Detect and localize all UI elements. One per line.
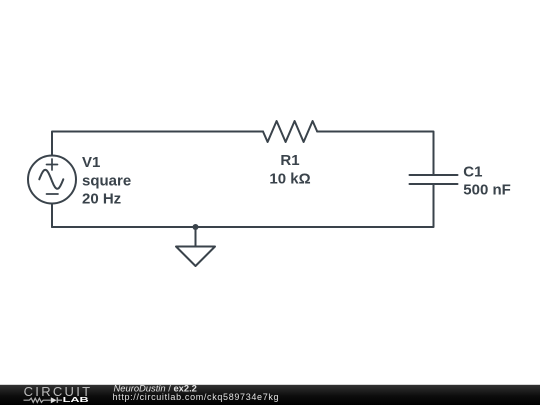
svg-text:C1: C1: [463, 164, 482, 181]
CircuitLab logo diode triangle: [51, 397, 57, 403]
capacitor C1: [410, 175, 458, 184]
svg-text:10 kΩ: 10 kΩ: [269, 170, 310, 187]
ground: [176, 227, 215, 266]
wire from resistor to top-right corner: [317, 132, 433, 176]
wire top-left from V1 top to resistor: [52, 132, 263, 156]
svg-text:V1: V1: [82, 154, 100, 171]
svg-text:square: square: [82, 172, 131, 189]
wire from C1 bottom to bottom-right corner: [52, 184, 434, 227]
svg-text:LAB: LAB: [63, 395, 90, 404]
label R1 10 kOhm: [269, 152, 310, 187]
voltage source V1: [28, 156, 76, 204]
svg-text:R1: R1: [280, 152, 299, 169]
resistor R1: [263, 121, 317, 142]
label C1 500 nF: [463, 164, 511, 199]
svg-text:20 Hz: 20 Hz: [82, 191, 121, 208]
svg-text:http://circuitlab.com/ckq58973: http://circuitlab.com/ckq589734e7kg: [113, 392, 280, 402]
footer bar: [0, 385, 540, 405]
CircuitLab logo resistor-diode line: [24, 397, 63, 403]
wire V1 bottom to bottom wire: [51, 204, 53, 228]
node junction dot: [193, 224, 199, 230]
svg-text:500 nF: 500 nF: [463, 181, 511, 198]
label V1 square 20 Hz: [82, 154, 131, 208]
